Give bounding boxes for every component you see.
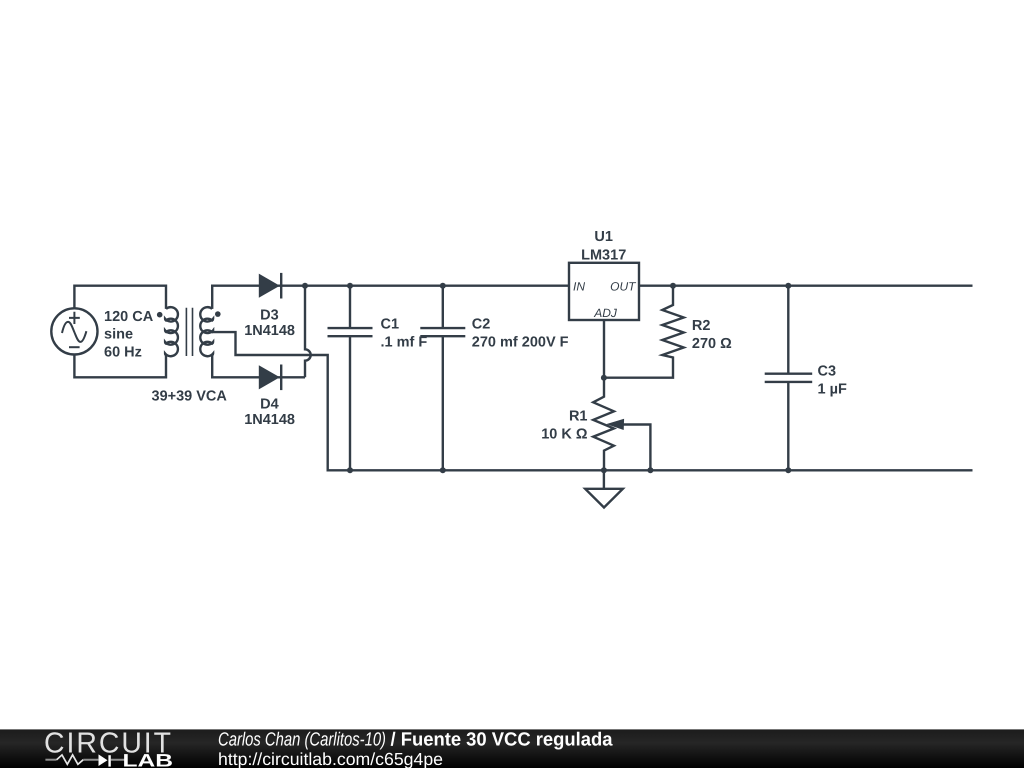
svg-text:C1: C1 bbox=[381, 316, 400, 332]
svg-text:270 Ω: 270 Ω bbox=[692, 336, 732, 352]
svg-text:http://circuitlab.com/c65g4pe: http://circuitlab.com/c65g4pe bbox=[218, 749, 443, 768]
svg-text:10 K Ω: 10 K Ω bbox=[541, 427, 588, 443]
svg-text:LAB: LAB bbox=[123, 751, 174, 768]
svg-text:Carlos Chan (Carlitos-10): Carlos Chan (Carlitos-10) bbox=[218, 730, 386, 751]
svg-text:1 µF: 1 µF bbox=[818, 381, 847, 397]
svg-text:ADJ: ADJ bbox=[593, 306, 618, 320]
svg-text:R1: R1 bbox=[569, 409, 588, 425]
svg-text:270 mf 200V F: 270 mf 200V F bbox=[472, 334, 569, 350]
svg-text:R2: R2 bbox=[692, 318, 711, 334]
svg-text:U1: U1 bbox=[594, 229, 613, 245]
svg-text:/ Fuente 30 VCC regulada: / Fuente 30 VCC regulada bbox=[391, 730, 613, 751]
svg-text:1N4148: 1N4148 bbox=[244, 412, 295, 428]
svg-text:D4: D4 bbox=[260, 396, 279, 412]
svg-text:1N4148: 1N4148 bbox=[244, 323, 295, 339]
svg-text:OUT: OUT bbox=[610, 280, 637, 294]
svg-text:60 Hz: 60 Hz bbox=[104, 344, 142, 360]
svg-text:C3: C3 bbox=[818, 363, 837, 379]
svg-text:39+39 VCA: 39+39 VCA bbox=[152, 388, 228, 404]
svg-text:LM317: LM317 bbox=[581, 247, 626, 263]
svg-text:IN: IN bbox=[573, 280, 585, 294]
svg-text:C2: C2 bbox=[472, 316, 491, 332]
svg-text:D3: D3 bbox=[260, 307, 279, 323]
svg-text:sine: sine bbox=[104, 327, 133, 343]
svg-text:.1 mf F: .1 mf F bbox=[381, 334, 428, 350]
svg-text:120 CA: 120 CA bbox=[104, 309, 154, 325]
